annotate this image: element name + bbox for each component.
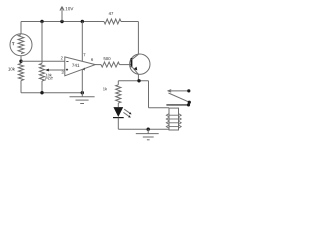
wire pin4 to ground [81, 69, 83, 92]
node junction emitter [137, 79, 140, 82]
label pin 3 [62, 71, 64, 74]
label 500 [104, 57, 111, 60]
thermistor TH1 circle [10, 34, 32, 56]
transistor Q1 base bar [131, 58, 133, 67]
wire output lead [95, 64, 101, 66]
wire LED to bottom [117, 118, 119, 130]
label 10k [8, 67, 15, 70]
label 10k POT [46, 74, 52, 77]
wire emitter to relay coil [148, 81, 150, 108]
node junction divider [19, 60, 22, 63]
resistor R4 500 [101, 62, 120, 67]
wire R1 bottom lead [20, 81, 22, 93]
label 1k [103, 87, 107, 90]
node junction pot-bottom [40, 91, 43, 94]
resistor R5 1k [116, 85, 121, 103]
transistor Q1 emitter arrow [134, 67, 138, 71]
resistor R1 10k [18, 63, 23, 80]
wire pin7 to rail [81, 22, 83, 62]
ground G2 [147, 129, 149, 133]
LED D1 light arrows [124, 109, 130, 114]
wire pot top lead [41, 22, 43, 64]
wire pot bottom lead [41, 81, 43, 93]
wire 1k to LED [117, 103, 119, 107]
node junction pin7 [81, 20, 84, 23]
label pin 6 [91, 58, 93, 61]
wire divider to inverting input [21, 60, 65, 62]
wire 1k top lead [117, 81, 119, 85]
op-amp U1 741 triangle [65, 57, 96, 76]
op-amp plus sign [66, 69, 68, 71]
wire thermistor bottom lead [20, 56, 22, 64]
op-amp minus sign [66, 60, 68, 62]
transistor Q1 circle [130, 54, 150, 74]
LED D1 cathode bar [113, 117, 124, 119]
label pin 7 [83, 53, 85, 56]
potentiometer R2 10k [39, 63, 44, 81]
relay K1 armature [169, 93, 190, 102]
node junction pot-top [40, 20, 43, 23]
wire bottom ground rail [21, 92, 83, 94]
ground G1 [81, 93, 83, 97]
wire top rail right segment [121, 21, 138, 23]
wire emitter lead [137, 74, 139, 81]
node junction ground1 [81, 91, 84, 94]
wire emitter rail [118, 80, 148, 82]
transistor Q1 emitter stroke [132, 66, 139, 74]
label 10V [66, 7, 74, 10]
relay K1 contact NO line [168, 90, 189, 92]
relay K1 coil [169, 108, 179, 130]
transistor Q1 collector stroke [132, 54, 139, 60]
LED D1 triangle [113, 107, 123, 117]
power +10V supply arrow [61, 7, 63, 22]
resistor R3 47 ohm [104, 19, 121, 24]
label T [12, 42, 14, 45]
relay K1 contact NC line [166, 104, 188, 106]
pot wiper arrow [48, 69, 65, 71]
wire collector to rail [137, 22, 139, 55]
wire bottom return [118, 128, 169, 130]
thermistor TH1 element [18, 35, 24, 54]
label 47 [109, 12, 113, 15]
label pin 2 [61, 56, 63, 59]
wire top +10V rail left segment [21, 21, 104, 23]
label pin 4 [83, 68, 85, 71]
node junction ground2 [147, 128, 150, 131]
wire R4 to base [120, 64, 132, 66]
node junction supply [60, 20, 63, 23]
wire thermistor top lead [20, 22, 22, 34]
label 741 [72, 64, 79, 67]
